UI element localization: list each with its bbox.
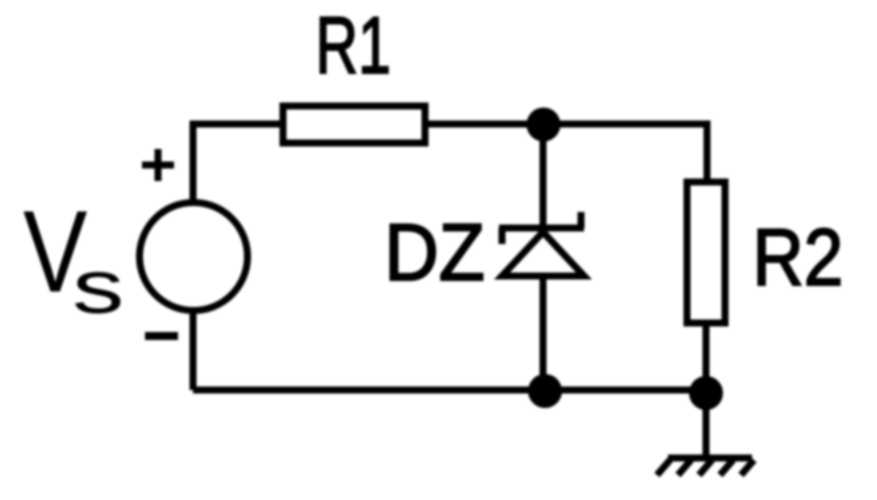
svg-text:R1: R1 [316,1,391,91]
svg-text:DZ: DZ [384,207,485,298]
svg-text:R2: R2 [753,213,844,303]
svg-text:s: s [72,246,124,330]
